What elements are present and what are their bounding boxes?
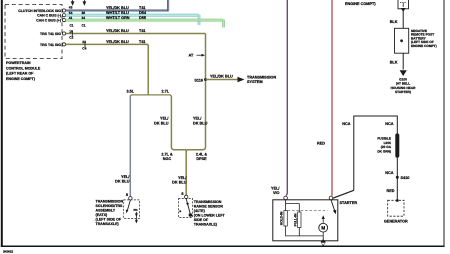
svg-text:2.4L &: 2.4L & [196, 152, 208, 156]
ground G100 symbol [400, 70, 407, 76]
fusible link label [377, 137, 391, 154]
transmission solenoid/TRS assembly dashed box [124, 200, 140, 219]
wire row3 vertical stub down [223, 19, 225, 28]
svg-text:ASSEMBLY: ASSEMBLY [96, 208, 116, 212]
svg-text:36: 36 [82, 11, 86, 15]
wire label row1 YEL/DK BLU [106, 6, 129, 10]
solenoid PN contact arrow down [135, 212, 138, 224]
circuit T41 row4 [139, 29, 146, 33]
wire row1 vertical up to page top [167, 0, 170, 11]
svg-text:YEL/: YEL/ [271, 186, 280, 190]
svg-text:AT: AT [189, 54, 194, 58]
black battery wire lower [402, 53, 404, 69]
fusible link [395, 133, 399, 157]
wire row2 vertical stub down [198, 14, 200, 25]
svg-text:D54: D54 [139, 11, 147, 15]
svg-text:(EATX): (EATX) [96, 213, 109, 217]
negative remote post battery box [395, 28, 409, 53]
wire label YEL/VIO [271, 186, 280, 195]
solenoid switch arm [126, 200, 131, 213]
PCM pin bubble row4 [62, 32, 65, 35]
svg-text:YEL/: YEL/ [121, 175, 130, 179]
long red wire to starter [331, 0, 333, 196]
hold-in coil [280, 211, 288, 227]
transmission solenoid/TRS assembly label [96, 199, 124, 226]
pin label CLUTCH INTERLOCK SIG [18, 9, 61, 13]
wire label YEL/DK BLU on S116 branch [193, 117, 208, 126]
starter internal feed to coils [286, 200, 300, 213]
starter motor M1 [319, 223, 328, 232]
wire 2.7L branch vertical [171, 96, 186, 195]
wire 3.5L branch slate vertical [129, 96, 131, 197]
svg-text:NCA: NCA [342, 122, 350, 126]
wire label YEL/DK BLU above left TRS [115, 175, 130, 184]
wire fusible link to S410 [396, 158, 398, 201]
starter box [273, 200, 338, 241]
transmission range sensor dashed box [178, 199, 192, 218]
wire label RED generator [386, 189, 394, 193]
long violet wire YEL/VIO [286, 0, 287, 196]
svg-text:YEL/: YEL/ [160, 117, 169, 121]
PCM pin bubble row2 [62, 14, 65, 17]
generator dashed box [388, 200, 404, 216]
svg-text:TRS T41 SIG: TRS T41 SIG [40, 43, 61, 47]
svg-text:T41: T41 [139, 29, 146, 33]
svg-text:TRANSMISSION: TRANSMISSION [194, 200, 222, 204]
pin number 18 row4 [69, 29, 73, 33]
svg-text:TRANSMISSION: TRANSMISSION [96, 199, 124, 203]
label C1 first [70, 24, 74, 28]
arrowhead to transmission system [238, 77, 245, 83]
connector tick C4 row5 [84, 42, 86, 48]
svg-text:ENGINE COMPT): ENGINE COMPT) [345, 2, 376, 6]
pin number 41 row3 [69, 16, 73, 20]
transmission solenoid pin bubble [129, 197, 132, 200]
label 2.4L & DPSE [196, 152, 208, 161]
circuit T41 row5 [139, 40, 146, 44]
svg-text:DPSE: DPSE [196, 157, 207, 161]
svg-text:TRS T41 SIG: TRS T41 SIG [40, 32, 61, 36]
wire row4 YEL/DK BLU to long vertical [66, 33, 206, 35]
circuit D54 row2 [139, 11, 147, 15]
svg-text:M: M [321, 226, 325, 232]
svg-text:STARTER): STARTER) [395, 90, 411, 94]
svg-text:DK GRN): DK GRN) [377, 150, 391, 154]
svg-text:YEL/: YEL/ [178, 176, 187, 180]
svg-text:NCA: NCA [385, 171, 393, 175]
page border bottom [1, 245, 445, 247]
svg-text:RED: RED [386, 189, 394, 193]
starter fixed contact arrow up [322, 215, 325, 223]
label 3.5L [127, 90, 135, 94]
svg-text:ENGINE COMPT): ENGINE COMPT) [411, 44, 437, 48]
label S410 [401, 176, 410, 180]
svg-text:DK BLU: DK BLU [154, 121, 169, 125]
powertrain control module label [6, 61, 41, 81]
starter case ground symbol [321, 239, 326, 246]
svg-text:3.5L: 3.5L [127, 90, 135, 94]
page border right [443, 0, 445, 247]
svg-text:C1: C1 [70, 24, 74, 28]
svg-text:(LEFT REAR OF: (LEFT REAR OF [6, 72, 34, 76]
svg-text:YEL/DK BLU: YEL/DK BLU [106, 6, 129, 10]
wire label YEL/DK BLU at S116 [210, 74, 233, 78]
svg-text:2.7L &: 2.7L & [161, 152, 173, 156]
svg-text:SIDE OF: SIDE OF [194, 218, 209, 222]
svg-text:(41TE): (41TE) [194, 209, 206, 213]
svg-text:CAN C BUS (-): CAN C BUS (-) [37, 14, 61, 18]
svg-text:ENGINE COMPT): ENGINE COMPT) [6, 77, 36, 81]
circuit D55 row3 [139, 16, 146, 20]
page border left [1, 0, 3, 247]
svg-text:23: 23 [82, 40, 86, 44]
label ENGINE COMPT top right [345, 2, 376, 6]
inline connector arrow C1 b [83, 0, 86, 5]
pin label TRS T41 SIG row5 [40, 43, 61, 47]
wire label row2 WHT/LT BLU [106, 11, 129, 15]
svg-text:34: 34 [82, 16, 86, 20]
wire row1 YEL/DK BLU horizontal [66, 9, 169, 12]
svg-text:BLK: BLK [390, 20, 398, 24]
svg-text:CONTROL MODULE: CONTROL MODULE [6, 66, 41, 70]
wire row2 CAN C (-) WHT/LT BLU [66, 14, 199, 16]
range sensor switch arm [186, 199, 192, 217]
connector tick C2 row4 [71, 31, 73, 37]
transmission solenoid/TRS assembly pin 8 [126, 193, 128, 197]
svg-text:HOLD-IN: HOLD-IN [280, 211, 284, 225]
svg-text:8: 8 [126, 193, 128, 197]
svg-text:T41: T41 [139, 40, 146, 44]
pin label CAN C BUS (+) [36, 19, 61, 23]
negative remote post battery label [411, 29, 437, 48]
svg-text:SOLENOID/TRS: SOLENOID/TRS [96, 204, 124, 208]
transmission range sensor pin bubble [185, 195, 188, 198]
label 2.7L [162, 90, 170, 94]
svg-text:BLK: BLK [390, 60, 398, 64]
svg-text:C2: C2 [69, 36, 73, 40]
PCM pin bubble row1 [62, 9, 65, 12]
svg-text:YEL/DK BLU: YEL/DK BLU [106, 29, 129, 33]
label S116 [194, 78, 203, 82]
svg-text:RED: RED [317, 142, 325, 146]
generator terminal dot [396, 199, 399, 202]
starter B+ pin bubble (red) [329, 196, 333, 200]
wire row5 vertical down to engine split [147, 44, 149, 95]
svg-text:T41: T41 [139, 6, 146, 10]
svg-text:S116: S116 [194, 78, 203, 82]
svg-text:GENERATOR: GENERATOR [384, 220, 408, 224]
PCM pin bubble row5 [62, 43, 65, 46]
svg-text:2.7L: 2.7L [162, 90, 170, 94]
engine split horizontal 3.5L/2.7L [130, 95, 171, 97]
PCM pin bubble row3 [62, 19, 65, 22]
circuit T41 row1 [139, 6, 146, 10]
svg-text:NGC: NGC [163, 157, 172, 161]
pin number 23 row5 [82, 40, 86, 44]
page code 3K0622 [3, 250, 14, 254]
svg-text:8: 8 [181, 192, 183, 196]
ground G100 label [391, 77, 416, 94]
label C4 [82, 46, 86, 50]
starter internal ground bus [286, 226, 324, 241]
svg-text:WHT/LT GRN: WHT/LT GRN [106, 16, 130, 20]
battery cable diagonal into starter [333, 190, 354, 198]
starter solenoid pin bubble (violet) [284, 196, 288, 200]
label 2.7L & NGC [161, 152, 173, 161]
svg-text:CAN C BUS (+): CAN C BUS (+) [36, 19, 61, 23]
svg-text:VIO: VIO [273, 191, 280, 195]
transmission range sensor label [194, 200, 226, 227]
wire label YEL/DK BLU on 2.7L branch [154, 117, 169, 126]
svg-text:C4: C4 [82, 46, 86, 50]
svg-text:NCA: NCA [385, 122, 393, 126]
pull-in coil [293, 212, 301, 228]
svg-text:C1: C1 [82, 24, 86, 28]
wire label row5 YEL/DK BLU [106, 40, 129, 44]
solenoid mechanical linkage dashed [288, 210, 328, 212]
label PN [134, 208, 138, 212]
battery feed bus NCA horizontal [354, 116, 398, 190]
wire label row3 WHT/LT GRN [106, 16, 130, 20]
black battery wire upper [402, 11, 404, 29]
AT branch tag [189, 54, 206, 58]
svg-text:RANGE SENSOR: RANGE SENSOR [194, 204, 224, 208]
svg-text:TRANSAXLE): TRANSAXLE) [96, 222, 120, 226]
label C2 [69, 36, 73, 40]
wire row3 CAN C (+) WHT/LT GRN [66, 19, 224, 21]
wire S116 to transmission system arrow [206, 79, 239, 81]
starter label [340, 201, 358, 205]
wire label row4 YEL/DK BLU [106, 29, 129, 33]
svg-text:WHT/LT BLU: WHT/LT BLU [106, 11, 129, 15]
battery negative post symbol [398, 0, 409, 12]
starter contact arm [331, 200, 336, 214]
label C1 second [82, 24, 86, 28]
svg-text:CLUTCH INTERLOCK SIG: CLUTCH INTERLOCK SIG [18, 9, 61, 13]
wire label BLK upper [390, 20, 398, 24]
label NCA right upper [385, 122, 393, 126]
transmission range sensor pin 8 [181, 192, 183, 196]
svg-text:SYSTEM: SYSTEM [247, 80, 263, 84]
svg-text:3K0622: 3K0622 [3, 250, 14, 254]
pin number 36 row2 [82, 11, 86, 15]
svg-text:S410: S410 [401, 176, 410, 180]
svg-text:PN: PN [134, 208, 138, 212]
splice S116 [204, 78, 207, 81]
svg-text:DK BLU: DK BLU [193, 121, 208, 125]
svg-text:TRANSMISSION: TRANSMISSION [247, 75, 276, 79]
range sensor left contact [179, 210, 181, 212]
wire label YEL/DK BLU above range sensor [172, 176, 187, 185]
svg-text:(ON LOWER LEFT: (ON LOWER LEFT [194, 213, 226, 217]
pin label CAN C BUS (-) [37, 14, 61, 18]
svg-text:STARTER: STARTER [340, 201, 358, 205]
svg-text:DK BLU: DK BLU [172, 180, 187, 184]
long vertical wire from row4 through S116 [186, 34, 205, 152]
powertrain control module U1 dashed box [5, 5, 62, 59]
label NCA left [342, 122, 350, 126]
svg-text:43: 43 [69, 6, 73, 10]
svg-text:PULL-IN: PULL-IN [293, 213, 297, 226]
pin label TRS T41 SIG row4 [40, 32, 61, 36]
svg-text:POWERTRAIN: POWERTRAIN [6, 61, 31, 65]
inline connector arrow C1 a [71, 0, 74, 5]
label TRANSMISSION SYSTEM [247, 75, 276, 84]
svg-text:YEL/DK BLU: YEL/DK BLU [210, 74, 233, 78]
svg-text:D55: D55 [139, 16, 146, 20]
svg-text:54: 54 [69, 11, 73, 15]
label NCA right lower [385, 171, 393, 175]
wire row5 YEL/DK BLU [66, 43, 149, 45]
splice S410 [396, 176, 399, 179]
wire label BLK lower [390, 60, 398, 64]
pin number 34 row3 [82, 16, 86, 20]
svg-text:YEL/DK BLU: YEL/DK BLU [106, 40, 129, 44]
wire label RED [317, 142, 325, 146]
svg-text:TRANSAXLE): TRANSAXLE) [194, 222, 218, 226]
svg-text:(LEFT SIDE OF: (LEFT SIDE OF [96, 217, 122, 221]
svg-text:41: 41 [69, 16, 73, 20]
generator label [384, 220, 408, 224]
svg-text:DK BLU: DK BLU [115, 180, 130, 184]
pin number 54 row2 [69, 11, 73, 15]
svg-text:YEL/: YEL/ [193, 117, 202, 121]
pin number 43 row1 [69, 6, 73, 10]
